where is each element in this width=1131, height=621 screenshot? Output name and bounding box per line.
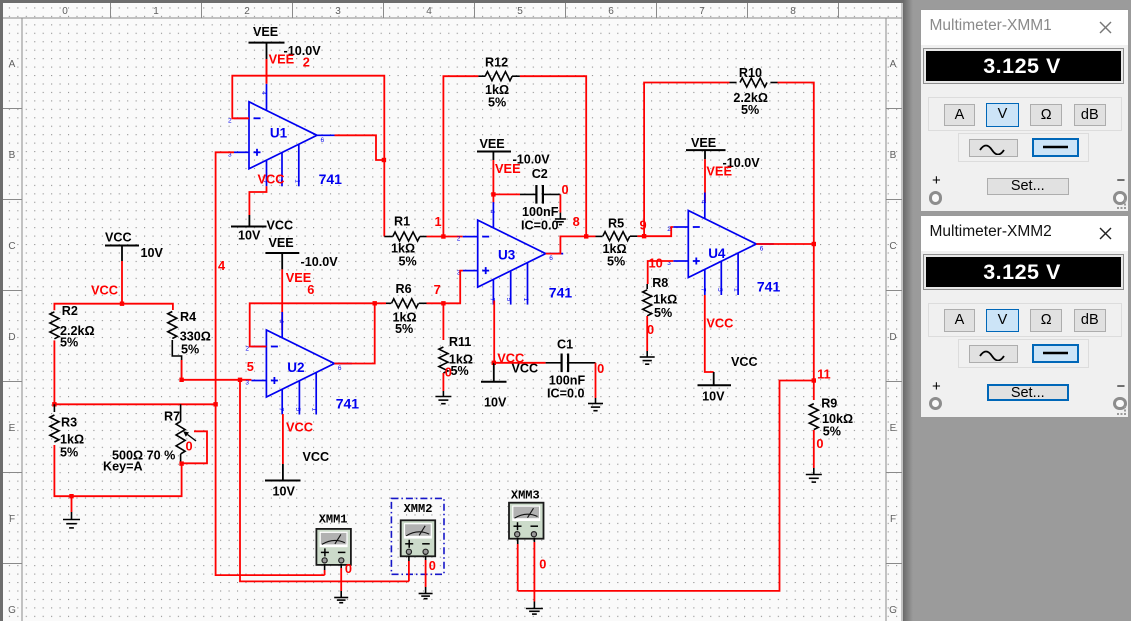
svg-text:U1: U1: [270, 126, 288, 141]
wire C2 right to ground: [559, 194, 561, 212]
svg-text:5%: 5%: [741, 103, 759, 117]
potentiometer R7: [180, 404, 182, 421]
junction node4 vertical: [213, 402, 217, 406]
wire node 7 to U3 + input: [427, 271, 463, 304]
svg-text:4: 4: [260, 91, 267, 95]
svg-text:7: 7: [277, 408, 284, 412]
resistor R11: [442, 303, 444, 340]
canvas background: [0, 0, 903, 621]
svg-text:0: 0: [647, 322, 654, 337]
svg-text:3: 3: [245, 380, 249, 387]
VEE supply (U3): [477, 151, 511, 153]
wire U2 VCC pin to supply: [282, 414, 284, 464]
svg-text:C1: C1: [557, 338, 573, 352]
wire node 8: U3 output / R12 right / R5: [546, 236, 596, 253]
svg-text:VCC: VCC: [731, 355, 758, 369]
svg-text:741: 741: [319, 171, 343, 187]
ground (C1): [588, 404, 603, 411]
junction node 8: [584, 234, 588, 238]
svg-text:10V: 10V: [141, 246, 164, 260]
svg-text:4: 4: [218, 258, 226, 273]
svg-text:1: 1: [153, 6, 159, 17]
VEE supply (U4): [686, 149, 726, 151]
svg-text:8: 8: [790, 6, 796, 17]
svg-text:VEE: VEE: [495, 161, 521, 176]
svg-text:VEE: VEE: [706, 163, 732, 178]
svg-text:11: 11: [817, 367, 831, 382]
svg-text:VEE: VEE: [480, 137, 505, 151]
svg-text:100nF: 100nF: [522, 205, 559, 219]
svg-text:VCC: VCC: [286, 420, 313, 435]
sheet border rulers: [3, 3, 902, 621]
wire node 5: down to XMM2: [240, 380, 409, 582]
wire VEE to U1 pin4: [266, 59, 268, 84]
svg-text:VCC: VCC: [267, 219, 294, 233]
resistor R9: [813, 381, 815, 401]
svg-text:6: 6: [307, 282, 314, 297]
op-amp U1: [234, 84, 335, 187]
svg-text:XMM1: XMM1: [319, 513, 348, 527]
wire node 10: R8 top to U4 + input: [648, 261, 674, 284]
svg-text:2: 2: [245, 346, 249, 353]
svg-text:1: 1: [522, 298, 529, 302]
junction U4 out / R10 right: [812, 242, 816, 246]
svg-text:6: 6: [549, 255, 553, 262]
svg-text:VEE: VEE: [691, 136, 716, 150]
svg-text:XMM2: XMM2: [404, 502, 433, 516]
svg-text:VEE: VEE: [253, 25, 278, 39]
wire node 5 rail to U2 + input: [182, 379, 252, 381]
svg-text:5: 5: [517, 6, 523, 17]
resistor R8: [646, 284, 648, 289]
svg-text:5: 5: [716, 288, 723, 292]
wire VCC to rail node 2: [121, 261, 123, 304]
svg-text:R5: R5: [608, 217, 624, 231]
svg-text:1: 1: [293, 179, 300, 183]
svg-text:7: 7: [434, 282, 441, 297]
junction bottom rail/ground: [69, 494, 73, 498]
junction R2/R3 node 4: [52, 402, 56, 406]
svg-text:9: 9: [640, 218, 647, 233]
wire U3 VCC pin down: [493, 301, 495, 363]
ground (XMM1): [334, 598, 348, 603]
svg-text:6: 6: [760, 246, 764, 253]
svg-text:10: 10: [649, 256, 663, 271]
instrument window Multimeter-XMM2: [920, 215, 1130, 418]
svg-text:IC=0.0: IC=0.0: [521, 219, 558, 233]
svg-text:1kΩ: 1kΩ: [653, 293, 677, 307]
ground (R11): [435, 397, 451, 404]
wire R7 wiper loop: [182, 431, 207, 463]
wire U1 output to junction: [335, 135, 385, 236]
svg-text:C2: C2: [532, 167, 548, 181]
svg-text:5%: 5%: [488, 96, 506, 110]
svg-text:G: G: [889, 605, 897, 616]
junction node 1 / R12 left: [441, 234, 445, 238]
resistor R10: [644, 83, 729, 237]
svg-text:100nF: 100nF: [549, 374, 586, 388]
svg-text:330Ω: 330Ω: [180, 330, 211, 344]
svg-text:VCC: VCC: [303, 450, 330, 464]
instrument XMM3 icon: [509, 503, 544, 539]
svg-text:0: 0: [816, 436, 823, 451]
junction node 9 / R10 left: [642, 234, 646, 238]
wire R1 to U3 - input (node 1): [427, 236, 463, 238]
svg-text:D: D: [8, 332, 15, 343]
svg-text:0: 0: [562, 182, 569, 197]
svg-text:R8: R8: [652, 276, 668, 290]
op-amp U4: [673, 193, 774, 296]
svg-text:3: 3: [335, 6, 341, 17]
VEE supply (U2): [265, 252, 299, 254]
svg-text:1: 1: [733, 288, 740, 292]
svg-text:1: 1: [311, 408, 318, 412]
svg-text:5%: 5%: [607, 255, 625, 269]
svg-text:741: 741: [336, 396, 360, 412]
junction node 7: [373, 301, 377, 305]
wire U1 feedback loop (node 2): [232, 76, 384, 160]
wire R12 right vertical: [520, 76, 586, 236]
svg-text:5%: 5%: [181, 343, 199, 357]
svg-text:5%: 5%: [60, 336, 78, 350]
resistor R2: [50, 312, 59, 339]
wire C1 right to ground: [595, 363, 597, 398]
svg-text:4: 4: [699, 200, 706, 204]
svg-text:0: 0: [345, 561, 352, 576]
svg-text:D: D: [889, 332, 896, 343]
canvas right drop shadow: [903, 0, 913, 621]
junction node5 to XMM2 drop: [238, 378, 242, 382]
wire node 11 branch to XMM3: [518, 381, 814, 591]
wire node 4: U1 + input down to XMM1: [216, 152, 325, 575]
capacitor C2: [493, 193, 520, 195]
svg-text:741: 741: [549, 285, 573, 301]
svg-text:E: E: [9, 423, 16, 434]
wire R4 bottom to node 5: [172, 340, 181, 380]
svg-text:0: 0: [62, 6, 68, 17]
VEE supply (U1): [249, 42, 285, 44]
svg-text:10V: 10V: [273, 485, 296, 499]
svg-text:R6: R6: [396, 282, 412, 296]
svg-text:R10: R10: [739, 66, 762, 80]
svg-text:E: E: [890, 423, 897, 434]
wire XMM3 + to node 11: [517, 538, 519, 544]
svg-text:6: 6: [608, 6, 614, 17]
svg-text:741: 741: [757, 279, 781, 295]
svg-text:R9: R9: [821, 397, 837, 411]
schematic canvas: [0, 0, 903, 621]
svg-text:C: C: [889, 241, 896, 252]
svg-text:0: 0: [539, 557, 546, 572]
svg-text:5: 5: [505, 298, 512, 302]
wire node 4 rail (R3/R7 top): [54, 403, 215, 405]
wire ground stub (left rail): [71, 496, 73, 512]
svg-text:10V: 10V: [484, 396, 507, 410]
resistor R6: [386, 302, 391, 304]
svg-text:0: 0: [429, 558, 436, 573]
svg-text:R11: R11: [449, 335, 471, 349]
svg-text:VCC: VCC: [105, 231, 132, 245]
svg-text:U2: U2: [287, 360, 304, 375]
svg-text:R4: R4: [180, 310, 196, 324]
svg-text:-10.0V: -10.0V: [301, 255, 339, 269]
junction node 11: [812, 378, 816, 382]
svg-text:5%: 5%: [399, 255, 417, 269]
wire R12 left vertical: [443, 76, 478, 236]
svg-text:A: A: [9, 59, 16, 70]
resistor R5: [596, 235, 603, 237]
svg-text:4: 4: [426, 6, 432, 17]
op-amp U2: [251, 312, 352, 415]
ground (left): [63, 520, 80, 528]
svg-text:VCC: VCC: [706, 315, 733, 330]
capacitor C1: [494, 362, 546, 364]
wire node 7: R6 left / U2 output / U2 - input: [250, 303, 375, 346]
svg-text:VCC: VCC: [91, 283, 118, 298]
resistor R1: [384, 236, 393, 238]
ground (R8): [640, 357, 655, 364]
junction R4/node5: [179, 378, 183, 382]
svg-text:7: 7: [699, 6, 705, 17]
ground (XMM2): [419, 594, 433, 599]
wire XMM2 - to ground: [425, 556, 427, 561]
svg-text:U3: U3: [498, 248, 516, 263]
svg-text:6: 6: [321, 137, 325, 144]
junction U1 output/feedback: [382, 158, 386, 162]
svg-text:VEE: VEE: [269, 236, 294, 250]
junction node7/R11: [441, 301, 445, 305]
svg-text:F: F: [9, 514, 15, 525]
svg-text:R12: R12: [485, 56, 508, 70]
resistor R4: [168, 312, 177, 339]
svg-text:1: 1: [435, 214, 442, 229]
svg-text:R1: R1: [394, 215, 410, 229]
svg-text:5%: 5%: [654, 306, 672, 320]
resistor R3: [50, 415, 59, 442]
svg-text:Key=A: Key=A: [103, 460, 143, 474]
svg-text:5%: 5%: [395, 322, 413, 336]
wire U1 VCC pin to supply: [249, 186, 266, 212]
wire XMM1 - to ground: [340, 564, 342, 568]
svg-text:VCC: VCC: [258, 172, 285, 187]
svg-text:2: 2: [457, 236, 461, 243]
instrument XMM2 icon: [401, 520, 436, 556]
svg-text:2: 2: [667, 226, 671, 233]
junction VEE/C2: [491, 192, 495, 196]
svg-text:0: 0: [445, 364, 452, 379]
selection box XMM2: [391, 498, 444, 574]
svg-text:1kΩ: 1kΩ: [60, 433, 84, 447]
svg-text:U4: U4: [708, 246, 726, 261]
svg-text:R3: R3: [61, 416, 77, 430]
svg-text:2: 2: [244, 6, 250, 17]
svg-text:2: 2: [228, 117, 232, 124]
wire XMM1 + to node 4: [324, 564, 326, 570]
wire node 9 to U4 - input: [637, 227, 673, 236]
svg-text:10V: 10V: [702, 390, 725, 404]
svg-text:0: 0: [597, 361, 604, 376]
ground (C2): [555, 219, 566, 225]
wire U4 output (node 11): [756, 244, 814, 381]
svg-text:5%: 5%: [60, 446, 78, 460]
VCC supply (left): [105, 245, 139, 247]
wire R2 bottom to node 4 rail: [53, 340, 55, 404]
svg-text:5%: 5%: [823, 425, 841, 439]
svg-text:1kΩ: 1kΩ: [391, 242, 415, 256]
wire rail node 2 (R2-R4 top): [54, 304, 172, 311]
wire XMM3 - to ground: [533, 538, 535, 542]
svg-text:2: 2: [303, 55, 310, 70]
junction R7 bottom/wiper: [179, 461, 183, 465]
svg-text:5: 5: [247, 359, 254, 374]
svg-text:4: 4: [489, 210, 496, 214]
op-amp U3: [463, 202, 564, 305]
svg-text:4: 4: [277, 320, 284, 324]
svg-text:8: 8: [573, 214, 580, 229]
svg-text:F: F: [890, 514, 896, 525]
svg-text:VEE: VEE: [269, 52, 295, 67]
wire XMM2 + to node 5: [408, 556, 410, 562]
svg-text:IC=0.0: IC=0.0: [547, 387, 584, 401]
VCC supply (U1): [248, 212, 250, 215]
junction VCC rail: [120, 302, 124, 306]
svg-text:10V: 10V: [238, 229, 261, 243]
svg-text:5: 5: [294, 408, 301, 412]
svg-text:7: 7: [699, 288, 706, 292]
svg-text:G: G: [8, 605, 16, 616]
svg-text:R7: R7: [164, 410, 180, 424]
wire R3 bottom to bottom rail: [54, 445, 181, 496]
VCC supply (U3): [493, 363, 495, 382]
ground (R9): [806, 475, 822, 483]
junction VCC/C1 (U3): [492, 361, 496, 365]
svg-text:R2: R2: [62, 304, 78, 318]
svg-text:5%: 5%: [451, 364, 469, 378]
svg-text:A: A: [890, 59, 897, 70]
instrument window Multimeter-XMM1: [920, 9, 1130, 212]
svg-text:B: B: [890, 150, 897, 161]
instrument XMM1 icon: [316, 529, 351, 565]
svg-text:6: 6: [338, 365, 342, 372]
svg-text:0: 0: [186, 439, 193, 454]
wire U4 VCC pin to supply: [705, 295, 714, 372]
svg-text:B: B: [9, 150, 16, 161]
ground (XMM3): [526, 609, 543, 615]
svg-text:C: C: [8, 241, 15, 252]
svg-text:XMM3: XMM3: [511, 489, 540, 503]
